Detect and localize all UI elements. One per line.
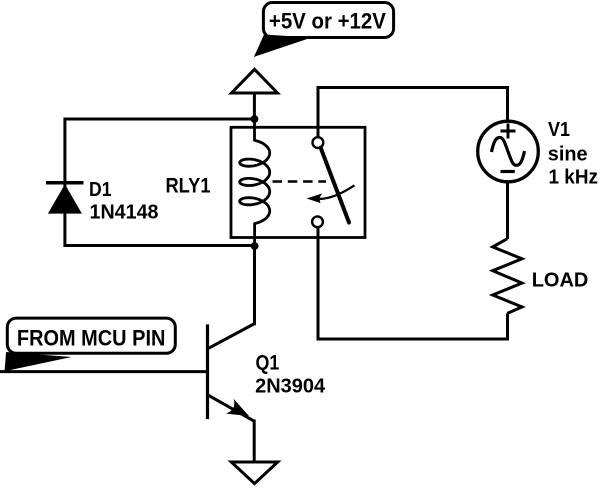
wire switch bottom pin down to bottom rail [317, 227, 320, 339]
svg-text:FROM MCU PIN: FROM MCU PIN [17, 326, 166, 351]
callout tail for +5V or +12V [254, 35, 312, 58]
node junction dot bottom [251, 242, 259, 250]
wire emitter vertical [253, 420, 256, 462]
wire V1 to LOAD [506, 181, 509, 239]
ground symbol [231, 462, 277, 484]
svg-text:LOAD: LOAD [532, 269, 589, 291]
diode D1 cathode bar [46, 181, 84, 185]
svg-text:V1: V1 [548, 119, 570, 141]
V1 plus sign [501, 124, 516, 139]
wire bottom rail [317, 338, 510, 341]
transistor Q1 base bar [206, 324, 209, 419]
wire collector vertical [253, 244, 256, 325]
wire D1 vertical [63, 118, 66, 248]
actuation arrow arc [316, 185, 355, 199]
wire base from MCU [0, 370, 206, 373]
wire top rail [317, 86, 508, 89]
wire coil top lead [253, 119, 256, 141]
transistor Q1 emitter arrowhead [226, 399, 249, 416]
transistor Q1 collector diagonal [207, 324, 254, 349]
wire power stem [253, 93, 256, 119]
callout box FROM MCU PIN [7, 318, 175, 353]
resistor LOAD zigzag [493, 239, 522, 314]
actuation arrowhead [307, 194, 323, 204]
wire coil bottom lead [253, 223, 256, 246]
diode D1 anode triangle [48, 184, 82, 213]
V1 minus sign [501, 170, 515, 173]
svg-text:2N3904: 2N3904 [255, 376, 326, 398]
wire switch top pin [317, 86, 320, 137]
relay contact bottom circle [312, 216, 323, 227]
relay RLY1 box [231, 127, 365, 237]
source V1 circle [478, 121, 539, 182]
node junction dot top [251, 115, 259, 123]
wire D1 bottom to coil junction [65, 244, 255, 247]
svg-text:RLY1: RLY1 [166, 175, 211, 198]
power symbol +5V/+12V triangle [232, 69, 278, 93]
callout tail for FROM MCU PIN [5, 352, 72, 371]
relay switch blade [321, 148, 349, 223]
inductor RLY1 coil [240, 140, 270, 223]
svg-text:1N4148: 1N4148 [90, 202, 159, 224]
svg-text:1 kHz: 1 kHz [549, 167, 599, 189]
wire LOAD bottom lead [506, 313, 509, 339]
svg-text:sine: sine [548, 144, 588, 166]
wire top-left from D1 to power junction [65, 118, 255, 121]
V1 sine wave [492, 138, 525, 166]
transistor Q1 emitter diagonal [207, 394, 254, 421]
svg-text:Q1: Q1 [256, 352, 280, 375]
svg-text:+5V or +12V: +5V or +12V [269, 9, 386, 34]
wire right vertical to V1 [506, 86, 509, 122]
svg-text:D1: D1 [89, 179, 112, 201]
relay contact top circle [313, 137, 324, 148]
callout box +5V or +12V [263, 3, 393, 38]
dashed actuation line [273, 180, 327, 183]
